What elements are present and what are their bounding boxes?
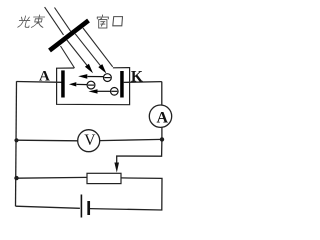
svg-text:V: V — [84, 132, 96, 149]
svg-text:K: K — [131, 69, 143, 86]
svg-text:A: A — [157, 110, 169, 127]
svg-text:A: A — [39, 68, 50, 84]
